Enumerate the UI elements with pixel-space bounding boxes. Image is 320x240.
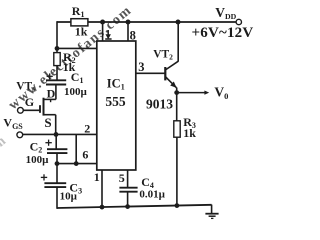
watermark diagonal text [6, 3, 135, 113]
wire: pin 7 to IC [57, 47, 97, 49]
node: collector on rail [176, 20, 181, 25]
watermark tail bottom-left [0, 133, 10, 240]
svg-text:5: 5 [119, 171, 125, 185]
svg-text:3: 3 [138, 60, 144, 74]
node: pin6 wire junction [74, 161, 79, 166]
terminal: G input circle [18, 107, 24, 113]
node: R1/R2/pin7 junction [55, 46, 60, 51]
wire: VT1 source down [55, 115, 57, 135]
resistor R1 [71, 4, 88, 39]
capacitor C3 10u [41, 164, 82, 209]
wire: drop to pin6 wire [75, 134, 77, 163]
node: pin4 on rail [100, 20, 105, 25]
node: Vo tap [174, 90, 179, 95]
wire: ground rail [57, 205, 212, 208]
svg-text:100µ: 100µ [26, 154, 49, 166]
wire: R3 to ground [176, 137, 178, 206]
svg-text:G: G [25, 95, 34, 109]
svg-text:S: S [44, 115, 51, 130]
wire: pin 3 to VT2 base [136, 72, 166, 74]
svg-text:+6V~12V: +6V~12V [192, 25, 254, 41]
ground symbol [205, 205, 218, 219]
svg-text:0.01µ: 0.01µ [139, 189, 165, 201]
wire: pin 5 lead [127, 170, 129, 188]
wire: R2 bottom to C1 [56, 66, 58, 80]
wire: VDD top rail [57, 21, 236, 23]
svg-text:2: 2 [84, 121, 90, 135]
terminal: VGS circle [17, 132, 23, 138]
IC U1 555 box [97, 41, 136, 170]
capacitor C2 100u [26, 134, 68, 166]
svg-text:1: 1 [94, 170, 100, 184]
svg-text:1k: 1k [183, 126, 196, 140]
svg-text:8: 8 [130, 28, 136, 42]
node: source/C2/VGS junction [54, 132, 59, 137]
svg-text:D: D [47, 86, 56, 100]
node: C2 bottom junction [55, 161, 60, 166]
capacitor C4 0.01u [119, 175, 165, 207]
wire: pin 1 lead to ground [101, 170, 103, 208]
wire: C1 bottom to VT1 drain [55, 85, 57, 100]
wire: VGS to IC pin 2 [23, 133, 97, 135]
wire: collector to VDD rail [177, 22, 179, 62]
svg-text:6: 6 [82, 148, 88, 162]
wire: pin 8 lead [127, 22, 129, 41]
node: C4 ground [125, 204, 130, 209]
wire: gate lead [23, 109, 40, 111]
svg-text:9013: 9013 [146, 96, 173, 111]
resistor R3 [174, 115, 196, 140]
resistor R2 [54, 50, 76, 74]
svg-text:100µ: 100µ [64, 86, 88, 98]
svg-text:10µ: 10µ [60, 190, 78, 202]
wire: pin 4 lead [102, 22, 104, 41]
capacitor C1 100u [46, 70, 88, 98]
transistor VT2 9013 [146, 49, 178, 112]
node: pin1 ground [100, 205, 105, 210]
wire: pin 6 to IC [57, 163, 97, 165]
transistor VT1 (FET) [16, 81, 56, 130]
terminal: VDD circle [236, 19, 241, 24]
wire: Vo output with arrow [177, 91, 210, 95]
node: R3 ground [175, 203, 180, 208]
pin 4 glyph [105, 30, 111, 39]
node: pin8 on rail [126, 20, 131, 25]
svg-text:555: 555 [105, 94, 126, 109]
wire: emitter down [176, 88, 178, 121]
wire: left drop from rail to R2 node [56, 21, 58, 53]
svg-text:1k: 1k [75, 24, 88, 38]
